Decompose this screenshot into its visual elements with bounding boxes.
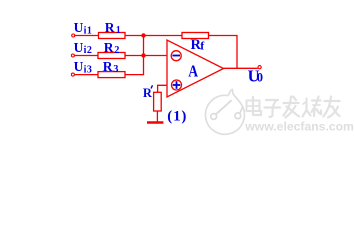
wire R' to ground (156, 111, 158, 122)
svg-text:U: U (74, 59, 84, 74)
resistor R2 (98, 53, 125, 59)
resistor R' (balance) (154, 92, 162, 111)
wire R3 to bus (125, 74, 144, 76)
svg-text:i3: i3 (84, 64, 93, 75)
terminal Ui3 (71, 73, 74, 76)
watermark logo diagonal lead 1 (216, 100, 232, 114)
wire R1 to node (125, 35, 144, 37)
watermark logo small node circle left (211, 114, 217, 120)
watermark logo small node circle right (235, 113, 241, 119)
svg-text:U: U (74, 20, 84, 35)
watermark logo circle (205, 95, 244, 134)
svg-text:U: U (74, 40, 84, 55)
svg-text:(1): (1) (167, 109, 187, 125)
svg-text:A: A (188, 62, 198, 81)
svg-text:0: 0 (257, 71, 263, 85)
wire non-inverting input jog (158, 85, 167, 92)
watermark logo flame notch (228, 89, 241, 103)
svg-text:1: 1 (116, 25, 121, 36)
label R1 (105, 20, 121, 36)
terminal Uo (258, 66, 261, 69)
dian (247, 101, 260, 112)
watermark chinese text dian zi fa shao you (simplified strokes) (247, 97, 340, 118)
svg-text:R: R (104, 40, 114, 55)
op-amp A triangle (167, 40, 224, 97)
resistor R1 (99, 33, 126, 39)
wire Ui2 to R2 (75, 55, 98, 57)
svg-text:3: 3 (113, 64, 118, 75)
you (325, 100, 340, 102)
label Rf (191, 37, 206, 53)
node junction dot row2 (141, 53, 145, 57)
svg-text:i1: i1 (84, 25, 93, 36)
terminal Ui1 (72, 34, 75, 37)
svg-text:www.elecfans.com: www.elecfans.com (244, 119, 354, 133)
op-amp inverting symbol (171, 51, 181, 61)
label R2 (104, 40, 120, 56)
label Ui1 (74, 20, 93, 36)
label R' (143, 85, 153, 100)
wire summing bus vertical (143, 36, 145, 75)
svg-text:2: 2 (114, 45, 119, 56)
label Uo (248, 66, 263, 85)
label R3 (103, 59, 119, 75)
wire inverting input (144, 55, 167, 57)
svg-text:R: R (105, 20, 115, 35)
fa (284, 102, 299, 104)
ground (147, 121, 163, 123)
watermark logo diagonal lead 2 (240, 107, 243, 114)
wire R2 to node (125, 55, 144, 57)
op-amp non-inverting symbol (172, 80, 182, 90)
terminal Ui2 (71, 54, 74, 57)
zi (266, 99, 278, 101)
wire node to Rf (144, 35, 183, 37)
svg-text:R: R (103, 59, 113, 74)
label Ui2 (74, 40, 93, 56)
shao (305, 99, 307, 111)
node junction dot row1 (141, 33, 145, 37)
label Ui3 (74, 59, 93, 75)
resistor Rf (182, 33, 209, 39)
wire Ui1 to R1 (75, 35, 99, 37)
wire output (224, 67, 258, 69)
wire Ui3 to R3 (75, 74, 98, 76)
resistor R3 (98, 72, 125, 78)
svg-text:i2: i2 (84, 45, 93, 56)
wire Rf to output drop (209, 36, 238, 69)
